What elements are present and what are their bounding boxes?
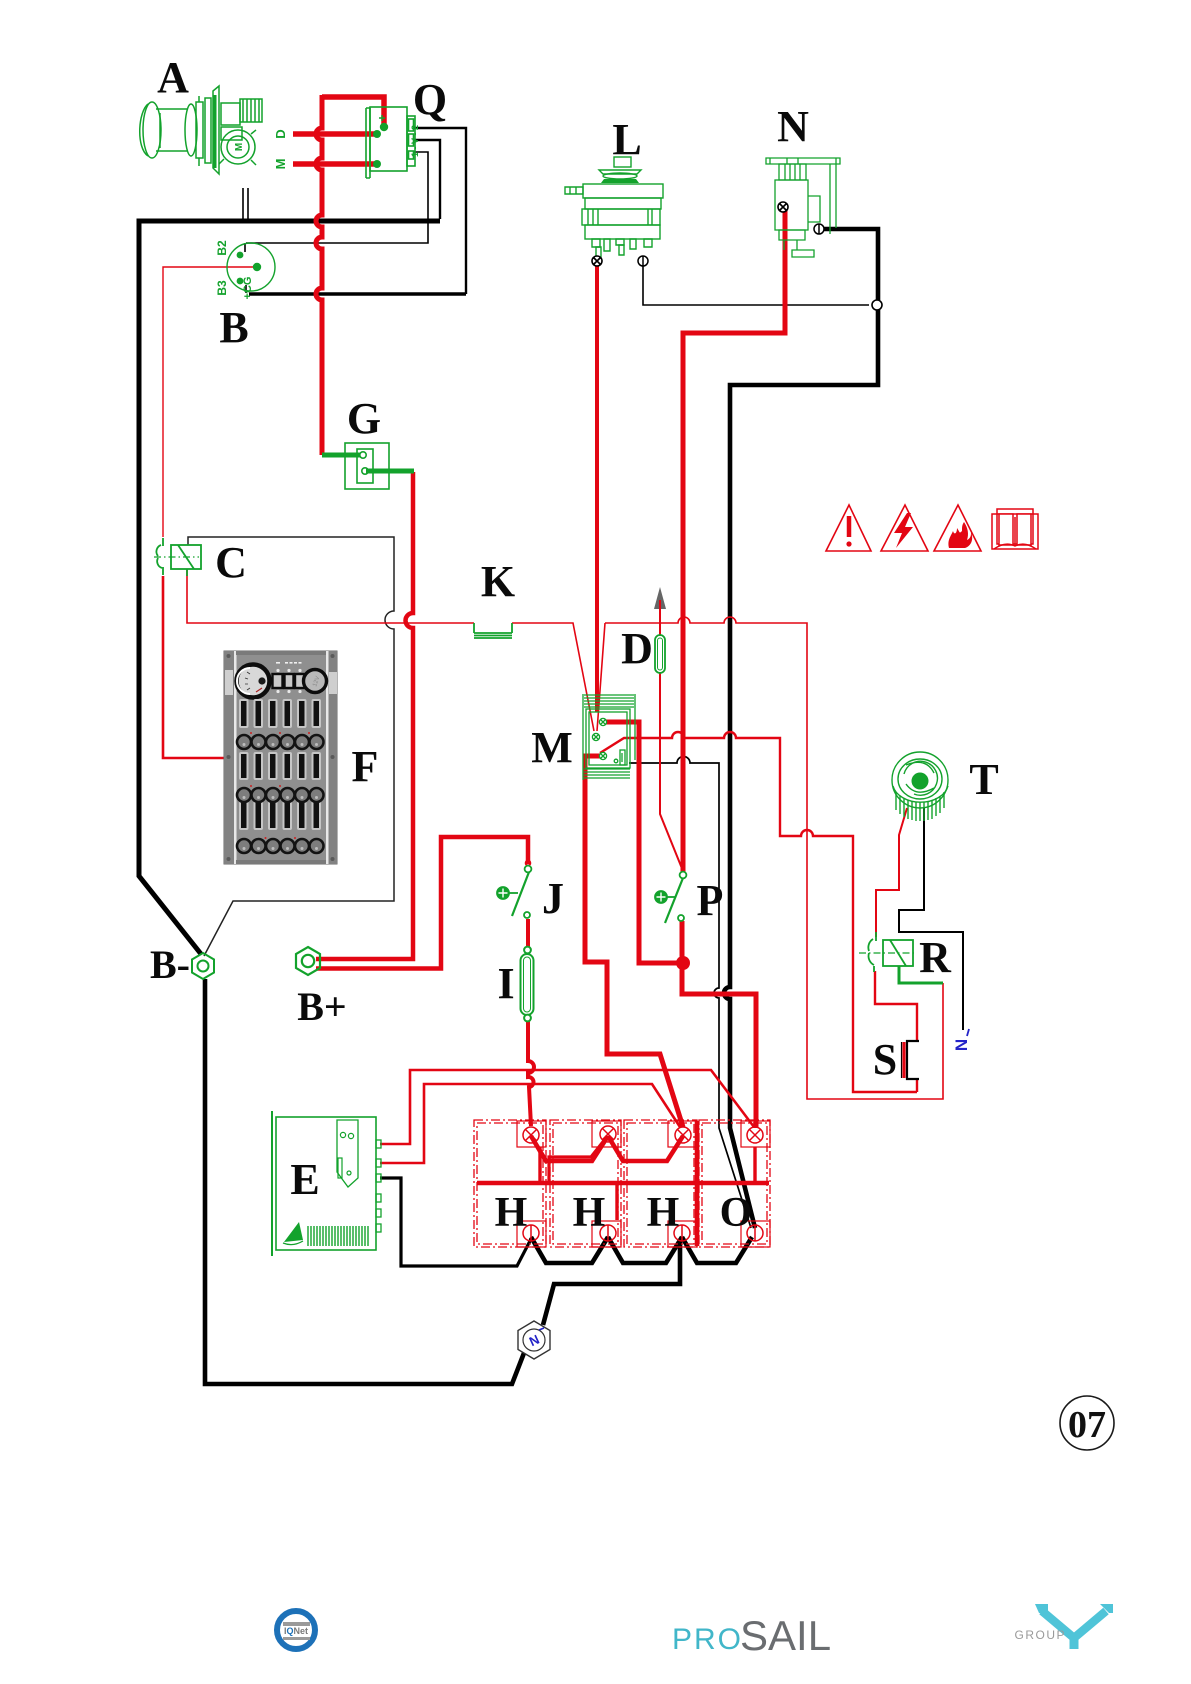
svg-text:H: H xyxy=(573,1190,606,1236)
charger E xyxy=(272,1111,381,1256)
svg-text:+CG: +CG xyxy=(242,277,254,300)
terminal L B+ screw xyxy=(592,256,602,266)
svg-text:D: D xyxy=(621,624,653,673)
fuse holder K xyxy=(474,623,512,638)
warning icon manual book xyxy=(992,509,1038,549)
battery bus stubs xyxy=(540,1147,755,1220)
svg-text:L: L xyxy=(612,115,641,164)
relay M xyxy=(583,694,635,780)
svg-text:B3: B3 xyxy=(215,280,229,296)
main voltmeter gauge xyxy=(237,665,270,698)
starter N drawing xyxy=(766,158,840,257)
svg-text:N: N xyxy=(777,102,809,151)
wire C loop top to B- thin xyxy=(188,537,394,956)
svg-text:B-: B- xyxy=(150,942,190,987)
wire I fuse to battery H1 plus with hops xyxy=(528,1021,534,1126)
svg-text:1 - V - 2: 1 - V - 2 xyxy=(410,125,420,157)
wire battery minus parallel links xyxy=(531,1237,752,1263)
wire K sense line with hops xyxy=(187,570,943,1099)
svg-text:C: C xyxy=(215,538,247,587)
warning icon exclamation triangle xyxy=(826,505,871,551)
bonding label N blue xyxy=(952,1029,971,1051)
wire L alternator B+ down to M relay xyxy=(595,263,599,712)
wire main red vertical B+ to windlass with hops xyxy=(316,95,322,455)
ring terminal on engine block xyxy=(872,300,882,310)
wire N starter plus cable xyxy=(683,210,785,872)
wire N ground to battery O minus xyxy=(724,229,878,1228)
svg-text:R: R xyxy=(919,933,952,982)
svg-text:B+: B+ xyxy=(297,984,346,1029)
svg-text:G: G xyxy=(347,394,381,443)
wire zinc anode to battery H3 minus xyxy=(543,1239,680,1325)
wire G to B+ xyxy=(316,472,413,959)
wire B- down left side to zinc anode xyxy=(205,979,524,1384)
wire Q terminal V down to ground bus xyxy=(413,140,440,219)
battery O box xyxy=(699,1120,770,1247)
wire R fuse to S fuse xyxy=(875,971,917,1092)
wire H2 plus to mid bus xyxy=(549,1138,606,1181)
wire B3 bus thick xyxy=(249,292,466,296)
fuse R xyxy=(859,932,943,983)
wire windlass supply loop to Q plus xyxy=(322,97,384,124)
battery mid bus xyxy=(477,1181,769,1186)
svg-text:SAIL: SAIL xyxy=(740,1612,831,1659)
wire B+ to J switch xyxy=(316,837,528,969)
battery terminals plus xyxy=(523,1126,763,1143)
gray arrow above D xyxy=(654,587,666,609)
svg-text:N: N xyxy=(952,1039,971,1051)
terminal N ground screw xyxy=(814,224,824,234)
wire windlass motor ground double stub xyxy=(243,188,248,219)
wire D stub to Q xyxy=(293,131,374,137)
footer IQNet badge xyxy=(277,1611,315,1649)
svg-text:E: E xyxy=(290,1155,319,1204)
wire E charger ground xyxy=(380,1178,531,1266)
svg-text:PRO: PRO xyxy=(672,1623,743,1656)
letter labels xyxy=(150,53,999,1236)
fuse S clip xyxy=(902,1041,920,1079)
relay M contacts xyxy=(592,718,606,759)
svg-text:S: S xyxy=(873,1035,897,1084)
wire T blower supply to R fuse xyxy=(876,808,907,937)
svg-text:B: B xyxy=(219,303,248,352)
control box Q xyxy=(366,107,415,178)
battery H1 box xyxy=(474,1120,546,1247)
svg-text:O: O xyxy=(720,1190,753,1236)
Q terminal dots xyxy=(380,123,388,131)
svg-text:H: H xyxy=(495,1190,528,1236)
wire C fuse to F panel xyxy=(163,576,225,758)
wire E output 1 to battery O plus xyxy=(380,1070,754,1144)
connector G xyxy=(345,443,389,489)
warning icon fire triangle xyxy=(934,505,981,551)
svg-text:IQNet: IQNet xyxy=(284,1626,308,1636)
rocker switches xyxy=(273,662,306,693)
wire CG sense from B xyxy=(163,267,255,537)
12V gauge xyxy=(304,670,327,693)
footer proSAIL logo xyxy=(672,1612,831,1659)
junction dot starter feed xyxy=(676,956,690,970)
warning icon lightning triangle xyxy=(881,505,928,551)
battery H2 box xyxy=(550,1120,621,1247)
distribution panel F xyxy=(224,651,337,864)
wire M contact to starter junction xyxy=(604,722,678,963)
switch P xyxy=(655,872,686,923)
svg-text:K: K xyxy=(481,557,515,606)
wire L ground thin to engine block xyxy=(643,263,869,305)
node B3 dot xyxy=(237,278,244,285)
wire D fuse branch to P xyxy=(660,612,683,871)
wire thick ground bus top xyxy=(139,221,440,954)
wire battery plus links xyxy=(531,1136,683,1161)
node B2 dot xyxy=(237,252,244,259)
svg-text:F: F xyxy=(352,742,379,791)
fuse D xyxy=(655,635,665,673)
svg-text:GROUP: GROUP xyxy=(1014,1628,1066,1642)
wire P to junction and battery O plus xyxy=(682,921,756,1128)
svg-text:D: D xyxy=(273,129,288,138)
svg-text:P: P xyxy=(697,876,724,925)
svg-text:T: T xyxy=(969,755,998,804)
wire J to I fuse xyxy=(526,919,530,948)
wire T blower to bonding N xyxy=(899,808,963,1030)
svg-text:J: J xyxy=(542,874,564,923)
fuse C xyxy=(154,538,201,576)
svg-text:Q: Q xyxy=(413,75,447,124)
panel breaker rows xyxy=(239,699,321,830)
battery bank xyxy=(474,1120,770,1247)
terminal B- hex xyxy=(192,953,214,979)
windlass A drawing xyxy=(140,86,262,174)
wire M aux contact to battery O minus thin xyxy=(629,757,751,1228)
switch J xyxy=(497,861,531,918)
svg-text:B2: B2 xyxy=(215,240,229,256)
battery terminal boxes xyxy=(517,1121,770,1247)
svg-text:I: I xyxy=(497,959,514,1008)
svg-text:M: M xyxy=(531,723,573,772)
battery interconnect vertical xyxy=(695,1121,700,1246)
fuse I xyxy=(521,947,534,1022)
svg-text:M: M xyxy=(273,159,288,170)
alternator L drawing xyxy=(565,157,663,257)
wire Q terminal 1 to B2 xyxy=(245,152,428,252)
blower T xyxy=(892,752,948,821)
panel knobs xyxy=(237,732,324,853)
zinc anode hex node xyxy=(518,1321,550,1359)
terminal N plus screw xyxy=(778,202,788,212)
battery terminals minus xyxy=(523,1225,763,1241)
footer Y group logo xyxy=(1014,1604,1113,1649)
terminal B+ hex xyxy=(296,947,320,975)
small green pin labels xyxy=(215,125,420,299)
wire Q terminal 2 to B3 xyxy=(413,128,466,294)
wire G link green xyxy=(322,453,360,458)
node B circle xyxy=(227,243,275,291)
node CG dot xyxy=(253,263,261,271)
battery H3 box xyxy=(624,1120,697,1247)
svg-text:H: H xyxy=(647,1190,680,1236)
svg-text:07: 07 xyxy=(1068,1404,1106,1446)
page number 07 circle xyxy=(1060,1396,1114,1450)
svg-text:A: A xyxy=(157,53,189,102)
wire E output 2 to battery H3 plus xyxy=(380,1084,680,1163)
terminal L ground screw xyxy=(638,256,648,266)
wire M left contact to battery H3 plus xyxy=(585,756,683,1127)
svg-text:M: M xyxy=(234,143,245,151)
wire M stub to Q xyxy=(293,161,374,167)
wire M relay sense to R fuse loop xyxy=(600,732,917,1092)
